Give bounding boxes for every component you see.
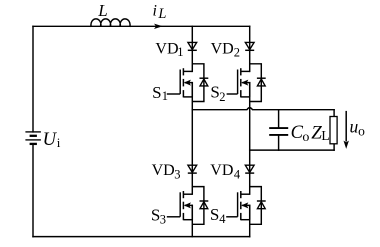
svg-text:S: S (210, 205, 219, 224)
svg-text:L: L (157, 6, 166, 22)
svg-text:i: i (153, 2, 157, 19)
svg-text:4: 4 (234, 167, 241, 181)
svg-text:4: 4 (219, 212, 226, 226)
svg-text:U: U (43, 130, 58, 150)
svg-text:o: o (302, 130, 309, 145)
svg-text:VD: VD (155, 40, 178, 57)
svg-text:S: S (152, 83, 161, 102)
svg-text:o: o (358, 124, 365, 139)
svg-text:2: 2 (234, 46, 240, 60)
svg-text:VD: VD (152, 162, 175, 179)
svg-text:1: 1 (162, 89, 168, 103)
svg-text:VD: VD (211, 41, 234, 58)
svg-text:1: 1 (177, 45, 183, 59)
svg-text:2: 2 (219, 90, 225, 104)
svg-text:L: L (321, 128, 329, 143)
svg-text:VD: VD (210, 162, 233, 179)
svg-text:3: 3 (160, 212, 166, 226)
svg-text:i: i (57, 135, 61, 150)
svg-text:L: L (97, 1, 107, 20)
svg-text:3: 3 (174, 167, 180, 181)
